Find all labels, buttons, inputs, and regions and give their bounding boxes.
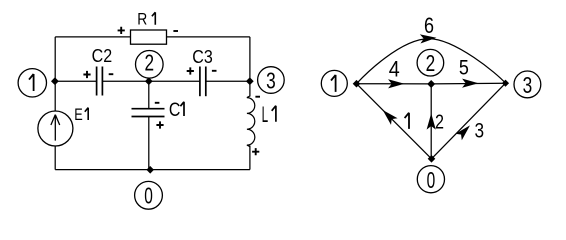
- C2 minus sign: [109, 73, 114, 75]
- svg-text:2: 2: [435, 112, 444, 134]
- C1 minus sign: [155, 102, 160, 104]
- graph vertex point 3: [502, 80, 509, 87]
- junction node 3: [246, 77, 254, 85]
- svg-text:3: 3: [523, 72, 533, 98]
- svg-text:C2: C2: [92, 45, 113, 66]
- graph edge 4 wire: [357, 83, 432, 85]
- R1 minus sign: [173, 30, 178, 32]
- svg-text:E: E: [74, 105, 83, 124]
- graph vertex point 1: [353, 80, 361, 88]
- capacitor C2: [97, 67, 103, 96]
- svg-text:3: 3: [475, 119, 485, 143]
- wire middle vertical C1 to bottom: [148, 117, 150, 170]
- wire main horizontal C3 to node3: [206, 80, 250, 82]
- svg-text:0: 0: [427, 167, 436, 193]
- graph edge 3 wire: [432, 83, 506, 159]
- graph node 3 circle: [514, 71, 541, 98]
- wire left vertical upper: [54, 37, 56, 111]
- wire middle vertical node2 to C1: [148, 81, 150, 109]
- graph edge 2 wire: [430, 84, 432, 159]
- L1 plus sign: [252, 148, 259, 155]
- graph vertex point 0: [428, 155, 436, 163]
- junction bottom node 0: [146, 166, 154, 174]
- wire main horizontal node1 to C2: [55, 80, 96, 82]
- source E1: [38, 111, 73, 146]
- junction node 2: [145, 77, 153, 85]
- wire right vertical upper: [249, 37, 251, 97]
- resistor R1: [131, 30, 167, 44]
- L1 minus sign: [255, 96, 260, 98]
- C2 plus sign: [83, 71, 90, 78]
- graph node 1 circle: [321, 70, 347, 96]
- svg-text:4: 4: [389, 57, 400, 82]
- node 3 circle: [258, 67, 285, 94]
- wire left vertical lower: [54, 146, 56, 170]
- node 1 circle: [18, 69, 46, 97]
- C1 plus sign: [156, 121, 163, 128]
- svg-text:6: 6: [424, 13, 434, 38]
- inductor L1: [247, 96, 255, 147]
- graph arrow edge 3: [457, 127, 469, 139]
- svg-text:0: 0: [144, 182, 153, 208]
- node 2 circle: [136, 51, 164, 79]
- graph node 0 circle: [417, 166, 444, 193]
- svg-text:2: 2: [426, 50, 436, 76]
- capacitor C3: [200, 67, 206, 97]
- graph arrow edge 1: [384, 111, 396, 123]
- graph arrow edge 2: [428, 115, 435, 128]
- svg-text:2: 2: [145, 50, 155, 76]
- graph arrow edge 6: [421, 35, 434, 42]
- graph arrow edge 4: [389, 80, 402, 87]
- C3 minus sign: [212, 70, 217, 72]
- svg-text:C: C: [169, 99, 181, 121]
- graph node 2 circle: [417, 49, 444, 76]
- wire right vertical lower: [249, 146, 251, 170]
- graph edge 1 wire: [357, 84, 432, 159]
- junction node 1: [51, 77, 59, 85]
- svg-text:C3: C3: [192, 46, 213, 67]
- wire main horizontal C2 to C3: [102, 80, 199, 82]
- graph vertex point 2: [427, 80, 435, 88]
- C3 plus sign: [187, 67, 194, 74]
- graph arrow edge 5: [463, 80, 476, 87]
- wire bottom horizontal: [55, 169, 250, 171]
- capacitor C1: [132, 109, 165, 117]
- svg-text:3: 3: [266, 68, 276, 94]
- E1 arrow: [51, 115, 60, 141]
- svg-text:5: 5: [459, 56, 469, 80]
- wire top horizontal: [55, 36, 250, 38]
- R1 plus sign: [118, 27, 125, 34]
- node 0 circle: [135, 181, 163, 209]
- graph edge 6 arc: [357, 39, 506, 84]
- svg-text:R: R: [137, 10, 147, 29]
- graph edge 5 wire: [431, 82, 505, 85]
- graph edge label 1: [405, 113, 409, 129]
- svg-text:L: L: [262, 102, 269, 127]
